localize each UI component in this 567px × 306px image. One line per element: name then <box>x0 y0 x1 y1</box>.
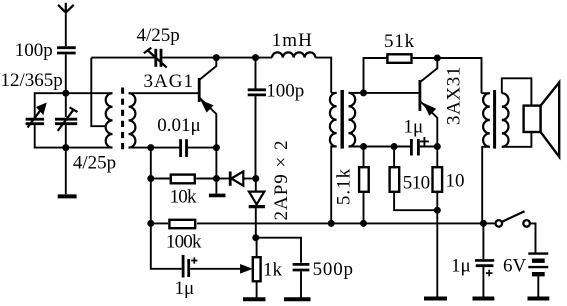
node15 <box>434 207 441 214</box>
node10 <box>360 89 367 96</box>
node on rail below T2 primary <box>328 220 335 227</box>
wire T3 secondary bottom to speaker <box>502 132 532 147</box>
wire node1 to C2 branch <box>35 93 66 117</box>
node16 switch junction <box>480 220 487 227</box>
wire node9 to C8 <box>256 238 301 263</box>
top rail wire middle <box>162 57 272 59</box>
ground G7 <box>528 297 550 301</box>
node8 <box>147 220 154 227</box>
svg-text:3AX31: 3AX31 <box>444 66 465 125</box>
inductor L1 1mH <box>272 30 316 58</box>
wire Q2 base <box>364 92 419 94</box>
potentiometer RP1 1k <box>253 238 283 298</box>
capacitor C1 100p <box>15 40 76 61</box>
node4 emitter Q1 row <box>213 144 220 151</box>
top rail wire left <box>91 57 154 59</box>
trimmer capacitor C4 4/25p feedback <box>137 25 180 68</box>
resistor R4 51k <box>384 31 437 63</box>
capacitor C10 1u electrolytic <box>451 223 494 296</box>
battery B1 6V <box>503 254 548 297</box>
transformer T2 core <box>341 90 344 149</box>
top rail wire right of L1 <box>315 58 331 93</box>
capacitor C5 100p <box>248 58 305 179</box>
wire node4 down <box>215 148 217 179</box>
svg-text:12/365p: 12/365p <box>1 70 63 91</box>
resistor R1 10k <box>151 175 217 208</box>
node9 <box>252 234 259 241</box>
resistor R3 5.1k <box>334 147 369 224</box>
node6 <box>213 175 220 182</box>
transformer T3 core <box>493 90 496 149</box>
capacitor C7 1u electrolytic <box>151 223 198 299</box>
transformer T1 core (dashed) <box>121 88 124 153</box>
resistor R6 10 <box>433 147 465 297</box>
capacitor C8 500p <box>293 259 354 298</box>
wire T3 secondary top to speaker <box>502 78 532 105</box>
wire T2 secondary bottom row <box>349 146 411 148</box>
diode D1 2AP9 <box>216 171 255 185</box>
node collector Q1 on rail <box>213 54 220 61</box>
ground G1 <box>58 194 77 198</box>
svg-text:4/25p: 4/25p <box>73 152 116 173</box>
variable capacitor C2 12/365p <box>1 70 63 128</box>
svg-text:0.01μ: 0.01μ <box>157 115 200 136</box>
feedback tap wire from top rail to T1 tap <box>91 58 106 127</box>
wire C1 to node1 <box>65 54 67 93</box>
transformer T3 primary winding <box>482 93 490 223</box>
svg-text:51k: 51k <box>384 31 415 52</box>
svg-text:10k: 10k <box>170 186 197 207</box>
ground G4 <box>284 297 311 301</box>
svg-text:100p: 100p <box>266 80 304 101</box>
ground G5 <box>424 297 447 301</box>
wire node12 to T3 primary top <box>437 58 481 93</box>
ground G2 <box>209 194 226 198</box>
svg-text:510: 510 <box>403 172 430 193</box>
capacitor C9 1u electrolytic <box>404 117 438 156</box>
wiper arrow wire to RP1 <box>190 265 251 273</box>
svg-text:3AG1: 3AG1 <box>144 71 194 92</box>
resistor R2 100k <box>151 220 202 253</box>
transistor Q1 3AG1 <box>144 58 217 148</box>
node2 <box>62 144 69 151</box>
svg-text:6V: 6V <box>503 255 527 276</box>
svg-text:500p: 500p <box>313 259 354 280</box>
node on rail below 5.1k <box>360 220 367 227</box>
node13 <box>391 143 398 150</box>
svg-text:2AP9 × 2: 2AP9 × 2 <box>271 139 292 220</box>
wire T1 secondary bottom to node3 <box>129 147 151 149</box>
switch S <box>483 211 535 252</box>
speaker LS <box>524 82 560 156</box>
wire node3 to node5 <box>150 148 152 179</box>
node3 <box>147 144 154 151</box>
wire node1 to T1 primary top <box>66 92 113 94</box>
wire node5 to node8 <box>150 179 152 224</box>
wire T2 secondary top to node10 <box>349 92 364 94</box>
antenna <box>58 3 74 13</box>
capacitor C6 0.01u <box>151 115 217 157</box>
ground G3 <box>243 297 266 301</box>
transformer T2 secondary winding <box>349 93 356 147</box>
svg-text:4/25p: 4/25p <box>137 25 180 46</box>
wire C2 to node2 <box>35 124 66 148</box>
diode D2 2AP9 <box>249 179 265 238</box>
svg-text:100p: 100p <box>15 40 53 61</box>
node5 <box>147 175 154 182</box>
wire node10 up to 51k rail <box>364 58 387 93</box>
node C5 top on rail <box>252 54 259 61</box>
svg-text:100k: 100k <box>166 232 202 253</box>
node1 <box>62 90 69 97</box>
node14 emitter Q2 <box>434 143 441 150</box>
supply rail wire <box>197 222 482 224</box>
wire antenna to C1 <box>65 12 67 46</box>
transformer T1 secondary winding <box>129 93 136 147</box>
svg-text:10: 10 <box>446 170 465 191</box>
node7 detector <box>252 175 259 182</box>
transformer T3 secondary winding <box>502 93 509 147</box>
trimmer capacitor C3 4/25p tank <box>55 93 116 173</box>
transistor Q2 3AX31 <box>420 58 465 147</box>
svg-text:1μ: 1μ <box>404 117 424 138</box>
wire node2 to ground <box>65 148 67 195</box>
wire node6 to ground <box>215 179 217 194</box>
node12 collector Q2 <box>434 55 441 62</box>
svg-text:1μ: 1μ <box>451 255 471 276</box>
ground G6 <box>473 297 495 301</box>
svg-text:1mH: 1mH <box>272 30 313 51</box>
transformer T2 primary winding <box>330 93 337 224</box>
resistor R5 510 <box>390 147 438 211</box>
node11 <box>360 143 367 150</box>
svg-text:1k: 1k <box>263 259 283 280</box>
svg-text:5.1k: 5.1k <box>334 168 355 205</box>
wire T1 secondary top to Q1 base <box>129 92 199 94</box>
transformer T1 primary winding <box>106 93 113 147</box>
svg-text:1μ: 1μ <box>175 278 195 299</box>
wire node2 to T1 primary bottom <box>66 147 113 149</box>
